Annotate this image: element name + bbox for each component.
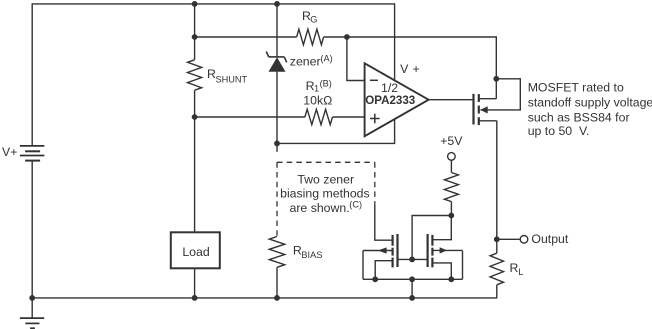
wire: shunt sense to R1 [195,116,305,118]
junction: R_SHUNT top / R_G wire [192,34,198,40]
svg-text:V+: V+ [2,145,17,159]
svg-text:standoff supply voltage: standoff supply voltage [528,95,652,109]
junction: mirror reference node [448,213,454,219]
svg-text:V +: V + [400,62,420,76]
wire: op-amp V- pin to zener node [277,119,395,143]
wire: feedback node down to op-amp inverting input [347,37,365,81]
resistor R1 10k [305,109,333,124]
svg-text:1/2: 1/2 [381,81,398,95]
svg-text:up to 50 V.: up to 50 V. [528,124,590,138]
battery V+ [20,146,45,161]
svg-text:Load: Load [182,245,210,259]
svg-text:MOSFET rated to: MOSFET rated to [528,80,624,94]
note: MOSFET rating [528,80,652,138]
dashed wire: left branch to R_BIAS [276,162,278,236]
junction: shunt sense node [192,114,198,120]
svg-text:are shown.: are shown. [290,201,350,215]
svg-text:OPA2333: OPA2333 [365,94,416,107]
transistor M1 (mirror, mirrored NMOS) [363,234,398,279]
op-amp plus sign [370,118,380,120]
op-amp U1 1/2 OPA2333 [365,63,429,136]
wire: top rail to R_SHUNT [194,4,196,60]
dashed wire: right branch to current mirror [374,162,376,205]
svg-text:such as BSS84 for: such as BSS84 for [528,110,630,124]
junction: ground rail / mirror [409,295,415,301]
svg-text:BIAS: BIAS [301,250,322,260]
wire: stub below V- node [276,143,278,151]
wire: R_L bottom to rail [496,285,498,298]
svg-text:G: G [310,14,317,24]
junction: ground rail / Load [192,295,198,301]
load box [171,232,220,268]
svg-text:R: R [510,261,519,275]
wire: mirror rail to ground rail [411,279,413,298]
svg-text:+5V: +5V [440,134,463,148]
wire: R2 to mirror reference node [450,202,452,216]
junction: top rail / zener branch [274,1,280,7]
resistor R2 (mirror reference) [444,173,458,202]
node: Output [494,236,500,242]
svg-text:SHUNT: SHUNT [216,74,248,84]
zener diode D1 [266,52,286,72]
svg-text:Output: Output [531,232,568,246]
wire: MOSFET drain down to output node and R_L [496,121,498,253]
junction: M2 source / bulk / rail [448,276,454,282]
junction: top rail / R_SHUNT branch [192,1,198,7]
note: two zener biasing methods [280,172,370,214]
junction: ground rail / R_BIAS [274,295,280,301]
wire: +5V to R2 [450,160,452,173]
wire: mirror gates from reference node [412,216,451,260]
node Output terminal [520,236,528,244]
svg-text:zener: zener [290,55,321,69]
resistor R_BIAS [269,237,284,268]
wire: Load bottom to rail [194,268,196,298]
wire: zener anode down to op-amp V- node [276,72,278,144]
wire: mirror source rail [363,278,463,280]
wire: R_BIAS bottom to rail [276,267,278,298]
wire: M2 drain (diode connection) [432,216,451,240]
ground [20,298,44,328]
svg-text:1: 1 [314,84,319,94]
svg-text:(C): (C) [349,200,362,210]
svg-text:Two zener: Two zener [297,172,354,186]
wire: battery - to bottom rail [31,161,33,298]
svg-text:10kΩ: 10kΩ [303,93,332,107]
resistor R_G [297,29,324,45]
resistor R_SHUNT [188,60,202,90]
junction: feedback node at R_G [344,34,350,40]
junction: ground rail / battery / ground symbol [29,295,35,301]
op-amp minus sign [370,79,378,81]
wire: output stub [497,238,520,240]
junction: mirror gates [409,257,415,263]
wire: R_G to MOSFET source (feedback node) [324,37,497,99]
wire: top rail to zener cathode [276,4,278,57]
wire: V+ rail (battery + to top rail to op-amp V+ pin) [32,4,394,146]
wire: dashed branch to M1 drain [375,205,393,240]
wire: R_SHUNT bottom to Load top (through +in node) [194,90,196,232]
resistor R_L [490,253,503,285]
junction: M1 source / mirror rail [372,276,378,282]
junction: MOSFET source / bulk [493,76,499,82]
svg-text:(B): (B) [320,79,332,89]
svg-text:L: L [518,267,523,277]
node +5V terminal [448,153,456,161]
node: zener anode / op-amp V- [274,141,280,147]
wire: gate leads M1 M2 [398,258,428,260]
wire: R1 to op-amp noninverting input [333,116,365,118]
dashed wire: zener bias option top [277,161,375,163]
svg-text:biasing methods: biasing methods [280,187,370,201]
junction: mirror rail / ground drop [409,276,415,282]
transistor M2 (mirror, NMOS) [428,234,463,279]
wire: bottom (ground) rail [32,297,497,299]
wire: R_SHUNT top to R_G [195,36,297,38]
transistor Q1 (PMOS BSS84 style) [474,79,521,125]
svg-text:(A): (A) [320,53,332,63]
wire: op-amp output to MOSFET gate [429,99,474,101]
